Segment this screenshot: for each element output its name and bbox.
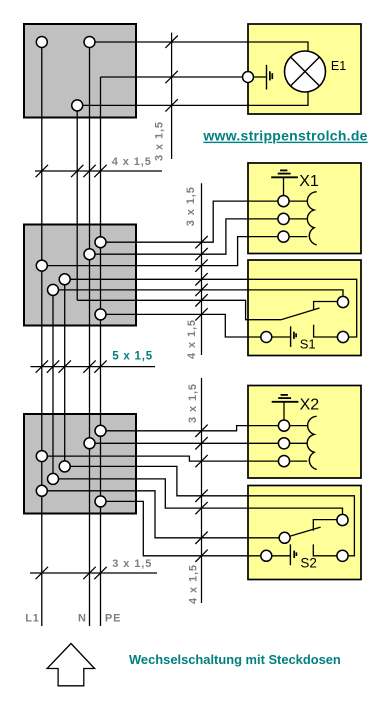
wire node C to X1 contact 3	[42, 237, 308, 266]
dimension line feed cable	[30, 572, 157, 574]
node J3 A2	[95, 425, 106, 436]
wire node A to X1 contact 1	[101, 201, 308, 242]
dimension line cable to E1	[171, 33, 173, 159]
ground symbol at S1	[273, 326, 297, 347]
svg-text:3 x 1,5: 3 x 1,5	[185, 186, 197, 226]
svg-text:L1: L1	[25, 613, 40, 625]
node X1 pin 2	[278, 213, 289, 224]
ground symbol at X1	[271, 170, 298, 201]
wire corresponding riser J2 to J3	[52, 290, 54, 479]
wire node E to S1 upper right terminal	[53, 290, 343, 302]
dimension line cables to X1 and S1	[201, 183, 203, 355]
switch S1 upper contact	[314, 302, 343, 310]
wire corresponding riser 2 J2 to J3	[64, 279, 66, 466]
node J2 A	[95, 237, 106, 248]
svg-text:E1: E1	[331, 59, 346, 73]
wire node A2 to X2 contact 1	[101, 426, 308, 431]
wire lamp switched-line riser	[76, 105, 78, 300]
wire node D to S1 lower right terminal	[65, 279, 357, 337]
wire node C2 to X2 contact 3	[42, 456, 308, 461]
svg-text:PE: PE	[105, 613, 121, 625]
wire L1 riser	[41, 42, 43, 626]
node X2 pin 3	[278, 456, 289, 467]
svg-text:5 x 1,5: 5 x 1,5	[112, 351, 153, 363]
node S2 left terminal	[261, 550, 272, 561]
node J2 D	[59, 274, 70, 285]
switch box S2	[248, 486, 361, 580]
node J1 pin 3	[72, 100, 83, 111]
node X1 pin 3	[278, 231, 289, 242]
switch S2 upper contact	[313, 520, 342, 531]
wire node D2 to S2 lower right terminal	[65, 466, 355, 555]
node S2 lever terminal	[279, 532, 290, 543]
switch S2 lower contact	[313, 544, 342, 555]
node J2 C	[36, 260, 47, 271]
svg-text:3 x 1,5: 3 x 1,5	[187, 383, 199, 423]
wire node E2 to S2 upper right terminal	[53, 479, 343, 520]
junction box J1 (top)	[24, 24, 136, 118]
svg-text:3 x 1,5: 3 x 1,5	[112, 558, 152, 570]
dimension line cable J1-J2	[35, 170, 162, 172]
svg-text:www.strippenstrolch.de: www.strippenstrolch.de	[202, 128, 367, 144]
svg-text:X1: X1	[299, 173, 319, 190]
up arrow symbol	[47, 644, 95, 686]
svg-text:Wechselschaltung mit Steckdose: Wechselschaltung mit Steckdosen	[129, 652, 341, 667]
wire PE to lamp terminal	[101, 76, 249, 78]
junction box J3 (bottom)	[24, 414, 136, 514]
node J3 G2	[95, 496, 106, 507]
dimension line cable J2-J3	[31, 366, 156, 368]
node J3 F2	[36, 485, 47, 496]
socket box X1	[248, 163, 361, 254]
junction box J2 (middle)	[24, 225, 136, 326]
switch box S1	[248, 260, 361, 356]
socket contact arcs X1	[307, 192, 316, 245]
node J3 E2	[48, 473, 59, 484]
wire node F2 to S2 lever terminal	[42, 491, 285, 538]
node S1 upper right terminal	[337, 296, 348, 307]
node S1 lower right terminal	[337, 331, 348, 342]
svg-text:4 x 1,5: 4 x 1,5	[186, 319, 198, 359]
node X2 pin 2	[278, 438, 289, 449]
node X2 pin 1	[278, 420, 289, 431]
wire node F to S1 left terminal	[101, 314, 267, 337]
ground symbol at S2	[273, 544, 297, 565]
switch S1 lower contact	[314, 325, 343, 337]
ground symbol at X2	[272, 395, 299, 426]
wire node G2 to S2 left terminal	[101, 501, 267, 555]
node J3 C2	[36, 451, 47, 462]
wire switched line to lamp E1 bottom	[77, 90, 308, 105]
socket box X2	[248, 386, 361, 479]
svg-text:4 x 1,5: 4 x 1,5	[112, 156, 152, 168]
lamp E1	[285, 51, 326, 92]
wire node B to X1 contact 2	[90, 219, 308, 254]
node J1 pin 1	[36, 37, 47, 48]
node E1 terminal	[243, 72, 254, 83]
ground symbol at E1	[254, 65, 272, 90]
switch S1 lever	[281, 308, 320, 320]
switch S2 lever	[285, 527, 321, 538]
node X1 pin 1	[278, 196, 289, 207]
lamp box E1	[248, 24, 361, 114]
node S1 left terminal	[261, 332, 272, 343]
wire switched line to S1 lever	[77, 300, 281, 319]
wire N to lamp E1 top	[90, 42, 309, 53]
wire N riser	[89, 42, 91, 626]
node J2 B	[84, 249, 95, 260]
node S2 upper right terminal	[337, 514, 348, 525]
wire PE riser	[100, 77, 102, 626]
svg-text:X2: X2	[300, 397, 320, 414]
node J3 B2	[84, 438, 95, 449]
wire node B2 to X2 contact 2	[90, 442, 308, 444]
svg-text:4 x 1,5: 4 x 1,5	[188, 564, 200, 604]
dimension line cables to X2 and S2	[201, 378, 203, 603]
svg-text:S2: S2	[300, 556, 317, 571]
socket contact arcs X2	[307, 416, 317, 469]
node J1 pin 2	[84, 37, 95, 48]
svg-text:N: N	[78, 613, 87, 625]
node J3 D2	[59, 461, 70, 472]
svg-text:S1: S1	[300, 336, 316, 351]
svg-text:3 x 1,5: 3 x 1,5	[154, 121, 166, 161]
node J2 F	[95, 309, 106, 320]
node J2 E	[48, 284, 59, 295]
node S2 lower right terminal	[337, 550, 348, 561]
